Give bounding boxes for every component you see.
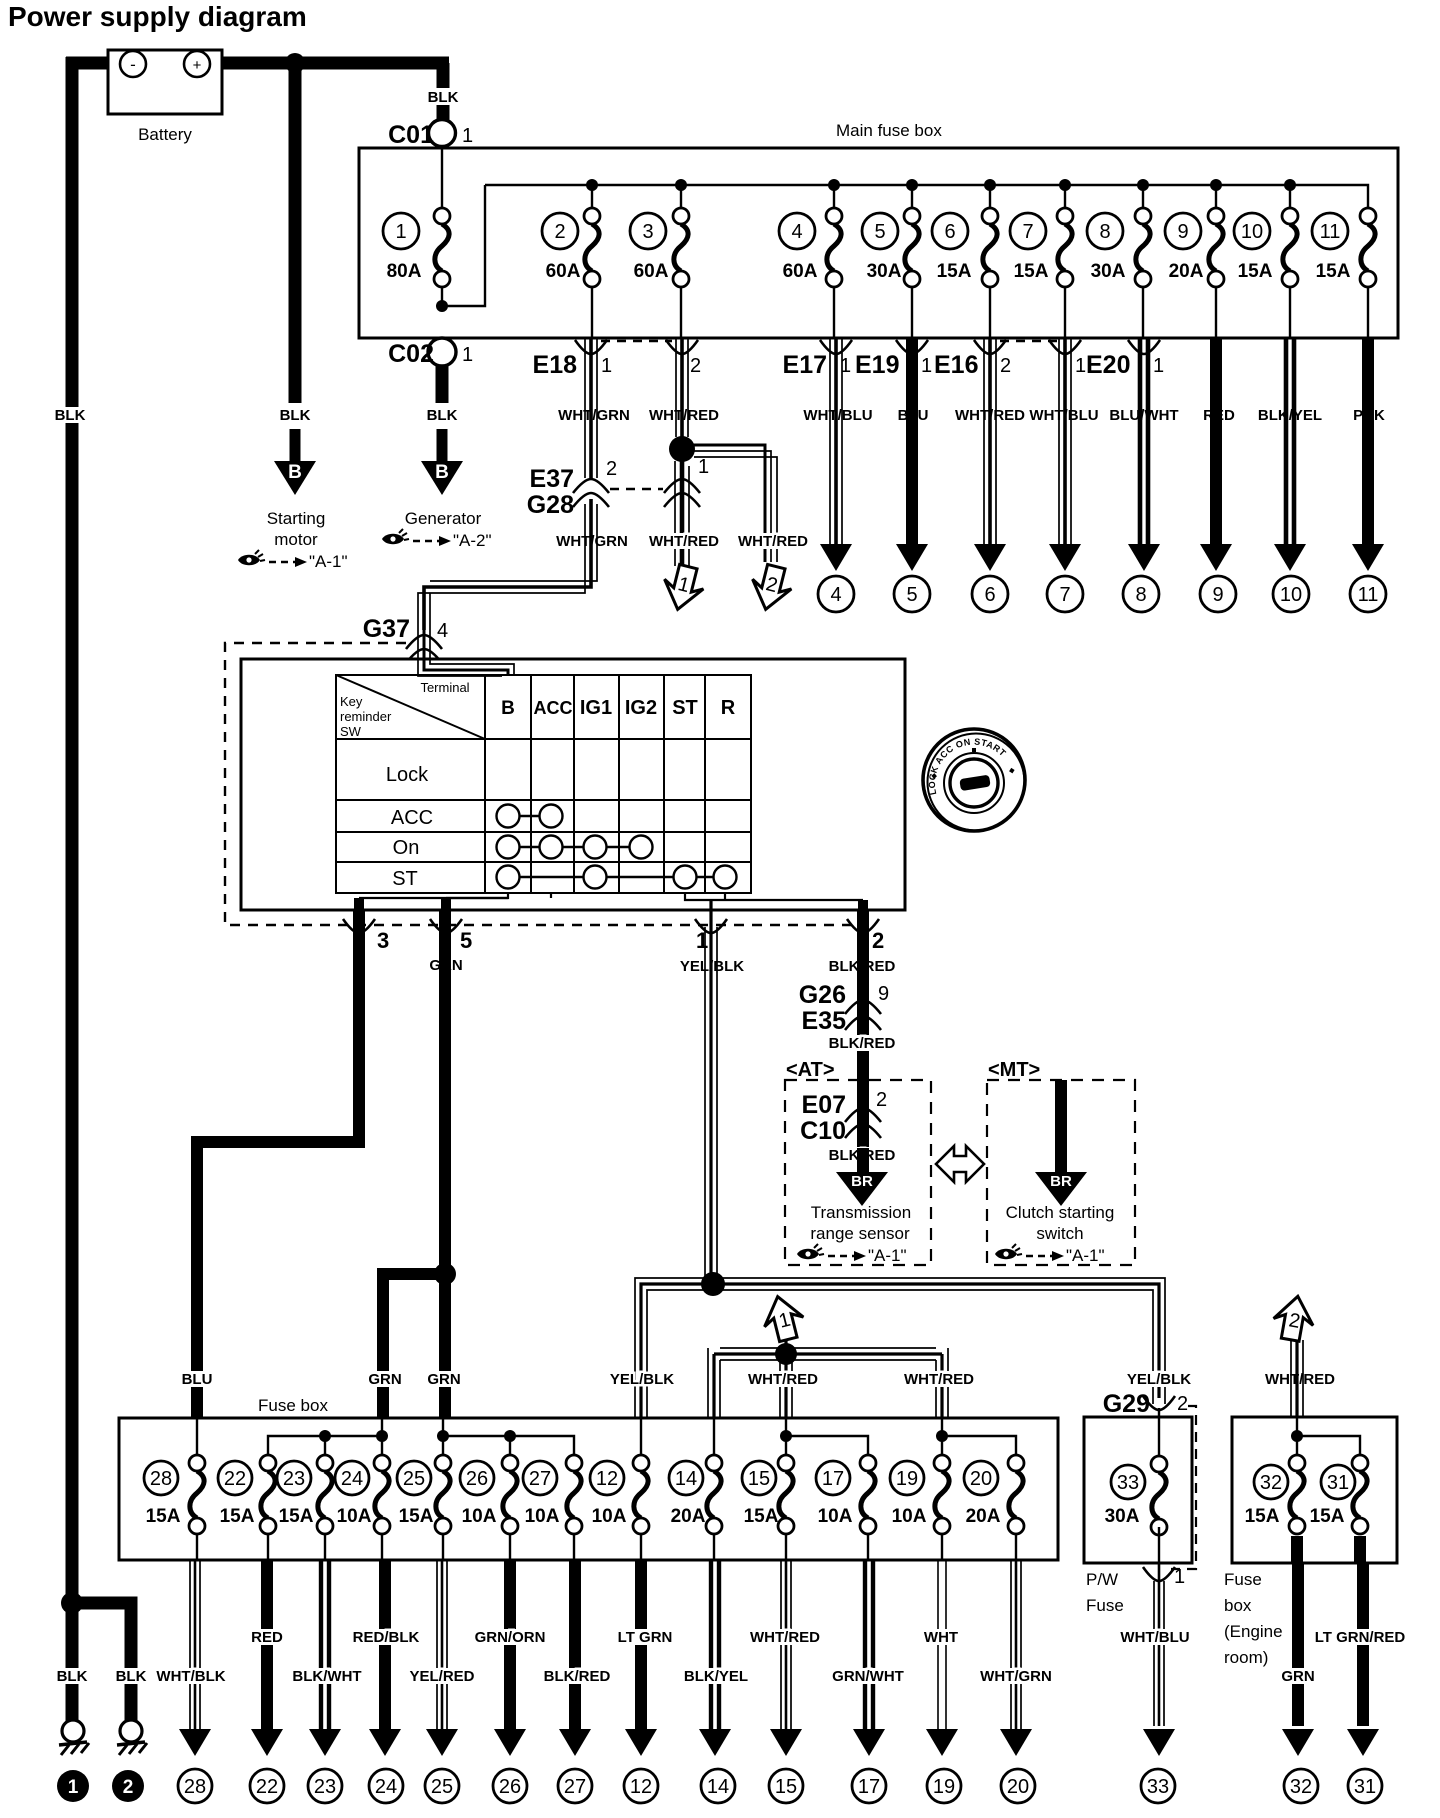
svg-text:12: 12 xyxy=(630,1776,652,1798)
svg-text:LT GRN/RED: LT GRN/RED xyxy=(1315,1629,1406,1646)
svg-text:GRN/ORN: GRN/ORN xyxy=(475,1629,546,1646)
svg-text:10A: 10A xyxy=(337,1506,372,1527)
svg-text:15A: 15A xyxy=(1238,261,1273,282)
wire RED/BLK from fuse 24 xyxy=(379,1560,391,1729)
node battery bus junction xyxy=(285,53,305,73)
svg-text:SW: SW xyxy=(340,724,362,739)
svg-text:15A: 15A xyxy=(399,1506,434,1527)
svg-text:ACC: ACC xyxy=(534,698,573,718)
fuse 27 10A xyxy=(523,1455,582,1534)
arrow 31 xyxy=(1347,1729,1379,1756)
svg-text:GRN: GRN xyxy=(368,1371,401,1388)
svg-text:1: 1 xyxy=(68,1777,79,1798)
node WHT/RED lower junction xyxy=(775,1343,797,1365)
wire WHT/BLU down to 33 xyxy=(1154,1563,1164,1726)
wire battery plus bus to C01 xyxy=(222,57,449,70)
svg-text:30A: 30A xyxy=(867,261,902,282)
svg-text:30A: 30A xyxy=(1091,261,1126,282)
svg-text:14: 14 xyxy=(707,1776,729,1798)
svg-text:15A: 15A xyxy=(1316,261,1351,282)
connector break G37 xyxy=(406,635,442,649)
svg-text:"A-1": "A-1" xyxy=(868,1246,907,1265)
svg-text:IG2: IG2 xyxy=(625,697,657,719)
svg-text:31: 31 xyxy=(1327,1472,1349,1494)
wire RED from fuse 22 xyxy=(261,1560,273,1729)
svg-text:GRN: GRN xyxy=(427,1371,460,1388)
svg-text:26: 26 xyxy=(466,1468,488,1490)
wire LT GRN/RED down to 31 xyxy=(1360,1536,1363,1726)
wire WHT/BLK from fuse 28 xyxy=(190,1560,200,1729)
svg-text:6: 6 xyxy=(944,221,955,243)
fuse 19 10A xyxy=(890,1455,950,1534)
svg-text:20A: 20A xyxy=(1169,261,1204,282)
svg-text:20A: 20A xyxy=(671,1506,706,1527)
wire color labels below main fuse box xyxy=(562,407,626,423)
svg-text:WHT/RED: WHT/RED xyxy=(748,1371,818,1388)
svg-text:19: 19 xyxy=(933,1776,955,1798)
svg-text:5: 5 xyxy=(874,221,885,243)
fuse 33 30A xyxy=(1105,1456,1167,1535)
switch contacts ACC row xyxy=(497,805,563,828)
circled 1 filled xyxy=(57,1770,89,1802)
wire BLU E19-1 down xyxy=(906,338,918,545)
node bus junctions xyxy=(586,179,1296,191)
svg-text:Clutch starting: Clutch starting xyxy=(1006,1203,1115,1222)
wire color labels above lower fuse box xyxy=(183,1371,212,1387)
svg-text:switch: switch xyxy=(1036,1224,1083,1243)
svg-text:-: - xyxy=(130,55,136,74)
svg-text:+: + xyxy=(193,57,202,74)
svg-text:<MT>: <MT> xyxy=(988,1059,1040,1081)
wire YEL/RED from fuse 25 xyxy=(437,1560,447,1729)
fuse 31 15A xyxy=(1310,1455,1368,1534)
node YEL/BLK junction xyxy=(701,1272,725,1296)
P/W fuse box xyxy=(1084,1417,1192,1563)
svg-text:1: 1 xyxy=(698,456,709,478)
wire WHT/BLU down xyxy=(1059,338,1071,545)
BR arrow MT xyxy=(1035,1172,1087,1206)
svg-text:4: 4 xyxy=(830,584,841,606)
svg-text:30A: 30A xyxy=(1105,1506,1140,1527)
svg-text:10A: 10A xyxy=(462,1506,497,1527)
wire WHT/RED E16-2 down xyxy=(984,338,996,545)
wire BLK/YEL down xyxy=(1286,338,1294,545)
connector break E18 pin2 xyxy=(666,340,698,354)
ignition switch solid box xyxy=(241,659,905,910)
svg-text:Generator: Generator xyxy=(405,509,482,528)
fuse 22 15A xyxy=(218,1455,276,1534)
hollow arrow 1 up xyxy=(758,1292,807,1344)
arrow 17 xyxy=(853,1729,885,1756)
svg-text:1: 1 xyxy=(696,928,708,953)
svg-text:15A: 15A xyxy=(220,1506,255,1527)
wire fuse1 bottom to bus riser xyxy=(442,185,485,306)
svg-text:10A: 10A xyxy=(818,1506,853,1527)
svg-text:YEL/BLK: YEL/BLK xyxy=(610,1371,674,1388)
svg-text:11: 11 xyxy=(1358,584,1379,606)
svg-text:GRN/WHT: GRN/WHT xyxy=(832,1668,904,1685)
fuse 20 20A xyxy=(964,1455,1024,1534)
svg-text:4: 4 xyxy=(791,221,802,243)
svg-text:C01: C01 xyxy=(388,121,434,149)
fuse 7 15A xyxy=(1010,208,1073,287)
svg-text:WHT/BLK: WHT/BLK xyxy=(156,1668,225,1685)
svg-text:WHT/RED: WHT/RED xyxy=(649,407,719,424)
svg-text:3: 3 xyxy=(642,221,653,243)
svg-text:WHT/GRN: WHT/GRN xyxy=(558,407,630,424)
ignition switch dashed box xyxy=(225,643,852,925)
svg-text:BLK: BLK xyxy=(57,1668,88,1685)
wire YEL/BLK horizontal run xyxy=(635,1278,1165,1418)
arrow 33 xyxy=(1143,1729,1175,1756)
hollow arrow 2 down xyxy=(746,562,795,614)
svg-text:15A: 15A xyxy=(1245,1506,1280,1527)
svg-text:Key: Key xyxy=(340,694,363,709)
svg-text:BLK/YEL: BLK/YEL xyxy=(1258,407,1322,424)
svg-text:80A: 80A xyxy=(387,261,422,282)
wire G29 into fuse 33 xyxy=(1158,1408,1160,1464)
svg-text:2: 2 xyxy=(876,1089,887,1111)
wire WHT/RED E18-2 upper xyxy=(676,338,688,437)
AT dashed box xyxy=(785,1080,931,1265)
wire BLU/WHT E20-1 down xyxy=(1140,338,1148,545)
connector break E16 xyxy=(974,340,1006,354)
wire C01 to fuse 1 xyxy=(441,147,443,208)
connector break E20 left wire xyxy=(1049,340,1081,354)
arrow 25 xyxy=(426,1729,458,1756)
arrow 32 xyxy=(1282,1729,1314,1756)
svg-text:10A: 10A xyxy=(525,1506,560,1527)
connector break E17 xyxy=(820,340,852,354)
svg-text:WHT/RED: WHT/RED xyxy=(750,1629,820,1646)
svg-text:28: 28 xyxy=(150,1468,172,1490)
node ground branch junction xyxy=(61,1592,83,1614)
arrow 26 xyxy=(494,1729,526,1756)
svg-text:1: 1 xyxy=(395,221,406,243)
wire table to pins 1,2 xyxy=(685,893,863,900)
wire fuse bottoms to box bottom xyxy=(592,287,1368,338)
arrow 27 xyxy=(559,1729,591,1756)
fuse 17 10A xyxy=(816,1455,876,1534)
svg-text:24: 24 xyxy=(375,1776,397,1798)
svg-text:Battery: Battery xyxy=(138,125,192,144)
wire C01 drop xyxy=(437,63,450,121)
arrow 11 xyxy=(1352,544,1384,571)
svg-text:15A: 15A xyxy=(1014,261,1049,282)
svg-text:33: 33 xyxy=(1117,1472,1139,1494)
dashed bridge E18 xyxy=(601,340,672,342)
fuse 12 10A xyxy=(590,1455,649,1534)
svg-text:22: 22 xyxy=(256,1776,278,1798)
arrow 22 xyxy=(251,1729,283,1756)
connector C01 xyxy=(429,120,456,147)
svg-text:WHT/BLU: WHT/BLU xyxy=(1120,1629,1189,1646)
svg-text:RED: RED xyxy=(251,1629,283,1646)
svg-text:E35: E35 xyxy=(802,1007,847,1035)
svg-text:WHT/BLU: WHT/BLU xyxy=(803,407,872,424)
svg-text:G29: G29 xyxy=(1103,1390,1150,1418)
svg-text:27: 27 xyxy=(529,1468,551,1490)
svg-text:9: 9 xyxy=(1212,584,1223,606)
svg-text:"A-1": "A-1" xyxy=(1066,1246,1105,1265)
svg-text:BLK: BLK xyxy=(55,407,86,424)
svg-text:10: 10 xyxy=(1280,584,1302,606)
G29 dashed bracket xyxy=(1171,1406,1196,1569)
svg-text:Terminal: Terminal xyxy=(420,680,469,695)
svg-text:E19: E19 xyxy=(855,351,899,379)
arrow 10 xyxy=(1274,544,1306,571)
svg-text:BLK/YEL: BLK/YEL xyxy=(684,1668,748,1685)
svg-text:15A: 15A xyxy=(1310,1506,1345,1527)
svg-text:23: 23 xyxy=(314,1776,336,1798)
fuse 4 60A xyxy=(779,208,842,287)
BR arrow AT xyxy=(836,1172,888,1206)
svg-text:GRN: GRN xyxy=(1281,1668,1314,1685)
wire MT to BR arrow xyxy=(1055,1080,1067,1172)
connector E07 C10 xyxy=(857,1080,869,1148)
svg-text:12: 12 xyxy=(596,1468,618,1490)
connector break E19 xyxy=(896,340,928,354)
node fuse1 bottom junction xyxy=(436,300,448,312)
svg-text:15A: 15A xyxy=(279,1506,314,1527)
svg-text:20A: 20A xyxy=(966,1506,1001,1527)
fuse 32 15A xyxy=(1245,1455,1305,1534)
node GRN branch xyxy=(434,1263,456,1285)
wire WHT/BLU E17-1 down xyxy=(830,338,842,545)
svg-text:WHT/RED: WHT/RED xyxy=(904,1371,974,1388)
svg-text:1: 1 xyxy=(1174,1566,1185,1588)
svg-text:ST: ST xyxy=(392,868,418,890)
arrow 19 xyxy=(926,1729,958,1756)
svg-text:room): room) xyxy=(1224,1648,1268,1667)
svg-text:Starting: Starting xyxy=(267,509,326,528)
svg-text:60A: 60A xyxy=(546,261,581,282)
svg-text:Transmission: Transmission xyxy=(811,1203,911,1222)
svg-text:WHT: WHT xyxy=(924,1629,958,1646)
connector break E18 pin1 xyxy=(575,340,607,354)
svg-text:BLK/RED: BLK/RED xyxy=(829,1035,896,1052)
svg-text:20: 20 xyxy=(970,1468,992,1490)
svg-text:17: 17 xyxy=(822,1468,844,1490)
fuse 1 80A xyxy=(383,208,450,287)
arrow 4 xyxy=(820,544,852,571)
wire G37 into switch xyxy=(418,630,514,676)
svg-text:C02: C02 xyxy=(388,340,434,368)
arrow 8 xyxy=(1128,544,1160,571)
svg-text:26: 26 xyxy=(499,1776,521,1798)
wire table to pins 3,5 xyxy=(359,893,551,898)
svg-text:10A: 10A xyxy=(892,1506,927,1527)
svg-text:15A: 15A xyxy=(744,1506,779,1527)
wire GRN/WHT from fuse 17 xyxy=(865,1560,873,1729)
arrow 28 xyxy=(179,1729,211,1756)
wire WHT/GRN to G37 xyxy=(418,499,597,630)
svg-text:G28: G28 xyxy=(527,491,574,519)
svg-text:<AT>: <AT> xyxy=(786,1059,835,1081)
wire WHT from fuse 19 xyxy=(938,1560,946,1729)
wire BLK/WHT from fuse 23 xyxy=(321,1560,329,1729)
svg-text:Main fuse box: Main fuse box xyxy=(836,121,942,140)
svg-text:10A: 10A xyxy=(592,1506,627,1527)
svg-text:2: 2 xyxy=(554,221,565,243)
svg-text:R: R xyxy=(721,697,736,719)
svg-text:G26: G26 xyxy=(799,981,846,1009)
svg-text:C10: C10 xyxy=(800,1117,846,1145)
svg-text:BLU: BLU xyxy=(182,1371,213,1388)
fuse 3 60A xyxy=(630,208,689,287)
wire WHT/GRN from fuse 20 xyxy=(1011,1560,1021,1729)
connector break E37/G28 wire1 xyxy=(573,479,609,493)
wire GRN branch to fuse 24 xyxy=(383,1274,445,1418)
svg-text:25: 25 xyxy=(431,1776,453,1798)
arrow 7 xyxy=(1049,544,1081,571)
svg-text:box: box xyxy=(1224,1596,1252,1615)
ground 2 xyxy=(117,1720,147,1755)
starting motor branch xyxy=(281,407,310,423)
svg-text:3: 3 xyxy=(377,928,389,953)
pin breaks at dashed line xyxy=(343,919,375,933)
wire GRN/ORN from fuse 26 xyxy=(504,1560,516,1729)
svg-text:27: 27 xyxy=(564,1776,586,1798)
fuse 15 15A xyxy=(742,1455,794,1534)
svg-text:8: 8 xyxy=(1099,221,1110,243)
svg-text:22: 22 xyxy=(224,1468,246,1490)
svg-text:reminder: reminder xyxy=(340,709,392,724)
arrow 24 xyxy=(369,1729,401,1756)
double arrow between AT and MT xyxy=(936,1146,984,1182)
svg-text:19: 19 xyxy=(896,1468,918,1490)
fuse 2 60A xyxy=(542,208,600,287)
svg-text:LT GRN: LT GRN xyxy=(618,1629,673,1646)
wire ground branch xyxy=(72,1603,131,1721)
svg-text:motor: motor xyxy=(274,530,318,549)
arrow 20 xyxy=(1000,1729,1032,1756)
wire WHT/GRN E18-1 xyxy=(585,338,597,478)
svg-text:Fuse: Fuse xyxy=(1086,1596,1124,1615)
switch contacts On row xyxy=(497,836,653,859)
svg-text:1: 1 xyxy=(462,344,473,366)
svg-text:25: 25 xyxy=(403,1468,425,1490)
wire pin1 YEL/BLK down xyxy=(705,900,717,1290)
svg-text:(Engine: (Engine xyxy=(1224,1622,1283,1641)
svg-text:On: On xyxy=(393,837,420,859)
svg-text:G37: G37 xyxy=(363,615,410,643)
connector C02 xyxy=(428,338,456,366)
svg-text:1: 1 xyxy=(462,125,473,147)
engine box internal bus xyxy=(1297,1418,1360,1455)
fuse 9 20A xyxy=(1165,208,1224,287)
wire WHT/RED lower horizontal xyxy=(708,1340,948,1418)
svg-text:5: 5 xyxy=(460,928,472,953)
arrow 12 xyxy=(625,1729,657,1756)
svg-text:32: 32 xyxy=(1290,1776,1312,1798)
wire WHT/RED from fuse 15 xyxy=(781,1560,791,1729)
svg-text:WHT/RED: WHT/RED xyxy=(1265,1371,1335,1388)
svg-text:5: 5 xyxy=(906,584,917,606)
arrow 9 xyxy=(1200,544,1232,571)
svg-text:IG1: IG1 xyxy=(580,697,612,719)
svg-text:P/W: P/W xyxy=(1086,1570,1118,1589)
svg-text:32: 32 xyxy=(1260,1472,1282,1494)
arrow 14 xyxy=(699,1729,731,1756)
wire RED down xyxy=(1210,338,1222,545)
arrow 15 xyxy=(770,1729,802,1756)
generator arrow B xyxy=(421,429,463,495)
svg-text:YEL/BLK: YEL/BLK xyxy=(1127,1371,1191,1388)
circled 2 filled xyxy=(112,1770,144,1802)
svg-text:BLK: BLK xyxy=(427,407,458,424)
wire fuse bottoms to box bottom (lower) xyxy=(197,1535,1016,1560)
switch contacts ST row xyxy=(497,866,737,889)
svg-text:33: 33 xyxy=(1147,1776,1169,1798)
svg-text:1: 1 xyxy=(921,355,932,377)
svg-text:23: 23 xyxy=(283,1468,305,1490)
connector break E20 xyxy=(1128,340,1160,354)
dashed bridge E16-E20 xyxy=(1000,340,1060,342)
wire BLK/YEL from fuse 14 xyxy=(711,1560,719,1729)
svg-text:10: 10 xyxy=(1241,221,1263,243)
svg-text:11: 11 xyxy=(1320,221,1341,243)
fuse 28 15A xyxy=(144,1455,205,1534)
fuse 26 10A xyxy=(460,1455,518,1534)
wire WHT/RED branch right xyxy=(682,445,777,562)
svg-text:BLK: BLK xyxy=(116,1668,147,1685)
fuse 11 15A xyxy=(1312,208,1376,287)
wire color labels below E37/G28 xyxy=(560,533,624,549)
ignition table xyxy=(336,675,751,893)
wire pin2 BLK/RED down xyxy=(857,910,869,1080)
svg-text:Lock: Lock xyxy=(386,764,429,786)
lower box internal buses xyxy=(197,1418,1016,1455)
dashed bridge E37/G28 xyxy=(610,488,663,490)
wire LT GRN from fuse 12 xyxy=(635,1560,647,1729)
svg-text:2: 2 xyxy=(690,355,701,377)
fuse 24 10A xyxy=(335,1455,390,1534)
svg-text:14: 14 xyxy=(675,1468,697,1490)
fuse 10 15A xyxy=(1234,208,1298,287)
svg-text:"A-2": "A-2" xyxy=(453,531,492,550)
svg-text:2: 2 xyxy=(123,1777,134,1798)
svg-text:8: 8 xyxy=(1135,584,1146,606)
svg-text:24: 24 xyxy=(341,1468,363,1490)
svg-text:9: 9 xyxy=(878,983,889,1005)
svg-text:Fuse box: Fuse box xyxy=(258,1396,328,1415)
svg-text:1: 1 xyxy=(1075,355,1086,377)
svg-text:ST: ST xyxy=(672,697,698,719)
svg-text:YEL/RED: YEL/RED xyxy=(409,1668,474,1685)
svg-text:ACC: ACC xyxy=(391,807,433,829)
arrow 5 xyxy=(896,544,928,571)
svg-text:E16: E16 xyxy=(934,351,978,379)
svg-text:7: 7 xyxy=(1022,221,1033,243)
svg-text:17: 17 xyxy=(858,1776,880,1798)
svg-text:31: 31 xyxy=(1354,1776,1376,1798)
engine room fuse box xyxy=(1232,1417,1397,1563)
svg-text:WHT/GRN: WHT/GRN xyxy=(980,1668,1052,1685)
svg-text:WHT/RED: WHT/RED xyxy=(738,533,808,550)
svg-text:E07: E07 xyxy=(802,1091,846,1119)
svg-text:BLK/WHT: BLK/WHT xyxy=(292,1668,361,1685)
wire GRN down to 32 xyxy=(1297,1536,1298,1726)
arrow 6 xyxy=(974,544,1006,571)
wire pin3 to BLU xyxy=(197,910,359,1418)
svg-text:7: 7 xyxy=(1059,584,1070,606)
arrow 23 xyxy=(309,1729,341,1756)
svg-text:B: B xyxy=(501,698,515,719)
svg-text:range sensor: range sensor xyxy=(810,1224,910,1243)
MT dashed box xyxy=(987,1080,1135,1265)
wire left main BLK vertical xyxy=(66,57,79,1721)
